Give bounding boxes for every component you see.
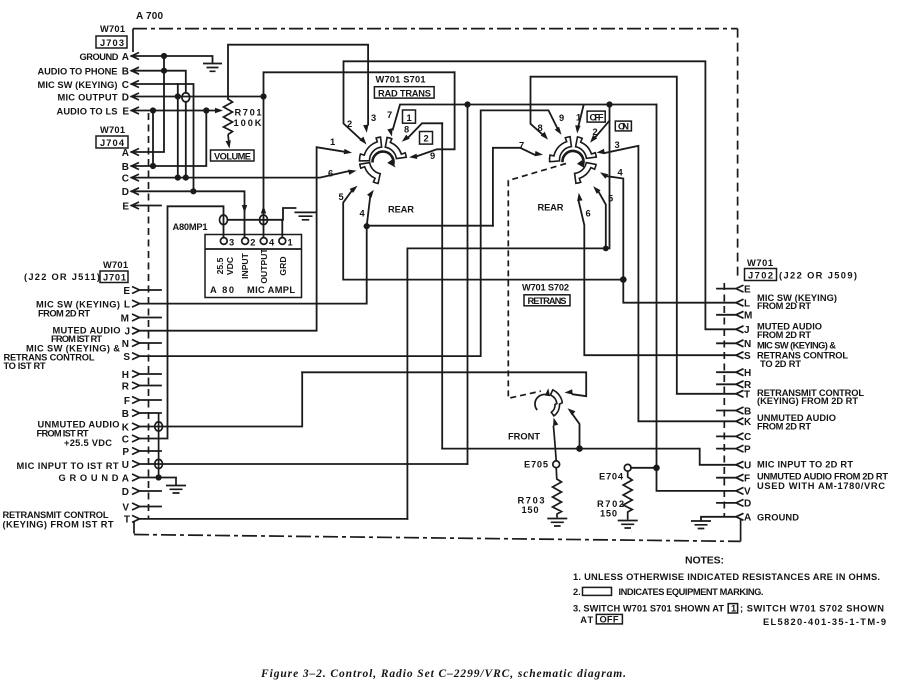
wire J703-D mic output row [132, 96, 264, 98]
svg-text:B: B [122, 409, 129, 420]
wire E705 to front switch bottom contact [553, 426, 556, 461]
svg-text:RAD TRANS: RAD TRANS [378, 88, 431, 98]
svg-text:TO 2D RT: TO 2D RT [760, 359, 801, 369]
J704 pin D chevron [132, 188, 140, 195]
svg-text:MIC SW (KEYING) &: MIC SW (KEYING) & [757, 341, 836, 351]
junction dot contact 5 lead [603, 246, 609, 252]
svg-text:3: 3 [615, 140, 620, 150]
svg-text:T: T [124, 515, 130, 526]
ground symbol at J701-A [166, 478, 186, 494]
svg-text:S: S [123, 352, 130, 363]
J701 pin E chevron [132, 287, 140, 294]
J701 pin M chevron [132, 314, 140, 321]
wire J701-S to S702 contact 9 [140, 110, 558, 356]
svg-text:3: 3 [229, 237, 234, 247]
svg-text:+25.5 VDC: +25.5 VDC [64, 438, 112, 448]
svg-text:8: 8 [404, 125, 409, 135]
svg-text:6: 6 [586, 209, 591, 219]
svg-text:FROM IST RT: FROM IST RT [51, 334, 102, 344]
svg-text:MIC SW (KEYING): MIC SW (KEYING) [38, 80, 118, 90]
J702 pin U chevron [736, 461, 744, 468]
svg-text:E: E [122, 106, 129, 117]
S701 wiper arrow [387, 160, 395, 168]
arrow S702 contact 8 [541, 132, 548, 140]
A700 boundary bottom dash-dot [134, 535, 741, 542]
svg-text:TO IST RT: TO IST RT [4, 361, 46, 371]
svg-text:AT: AT [580, 615, 593, 625]
J701 pin U chevron [132, 461, 140, 468]
ON marking box [615, 121, 631, 131]
J702 pin C chevron [736, 433, 744, 440]
svg-text:EL5820-401-35-1-TM-9: EL5820-401-35-1-TM-9 [763, 617, 886, 627]
svg-text:D: D [122, 92, 129, 103]
svg-text:H: H [744, 368, 751, 379]
wire O1 to ground bus [281, 220, 283, 238]
R701 bottom lead [227, 135, 230, 142]
wire J701-U mic input row [140, 463, 468, 465]
svg-text:T: T [744, 390, 750, 401]
J702 pin A chevron [736, 513, 744, 520]
potentiometer R701 wiper arrow from E row [215, 108, 223, 113]
svg-text:B: B [122, 67, 129, 78]
wire keying bus to J702-U [442, 449, 736, 465]
J703 pin C chevron [132, 81, 140, 88]
S702 wiper arrow [577, 160, 585, 168]
svg-text:D: D [122, 487, 129, 498]
junction dot A row [161, 53, 167, 59]
arrow S701 contact 2 [359, 137, 366, 145]
RETRANS marking box [524, 295, 570, 306]
wire vertical A to J704-A [132, 56, 165, 152]
arrow S702 contact 3 [597, 149, 605, 154]
J702 pin H chevron [736, 369, 744, 376]
feedthrough capacitor on 25.5V line [220, 215, 228, 225]
svg-text:FROM IST RT: FROM IST RT [37, 428, 89, 438]
wire junction to front switch middle contact [572, 413, 580, 449]
svg-text:B: B [744, 406, 751, 417]
svg-text:W701: W701 [100, 125, 125, 135]
wire S702 contact 3 to J702-K [605, 146, 737, 422]
J702 pin M chevron [736, 311, 744, 318]
J704 pin A chevron [132, 149, 140, 156]
J701 pin L chevron [132, 300, 140, 307]
junction dot E row x206 [203, 107, 209, 113]
J701 pin P chevron [132, 448, 140, 455]
arrow up on output wire [261, 206, 266, 214]
svg-text:E705: E705 [524, 460, 548, 470]
svg-text:100K: 100K [234, 118, 262, 128]
wire junction to J702-L [623, 280, 736, 303]
wire U column [467, 105, 469, 465]
J702 pin H stub [717, 371, 736, 373]
svg-text:J704: J704 [100, 138, 125, 148]
wire J704-C to S701 contact 6 [132, 171, 350, 178]
wire J701-T retransmit keying row [140, 518, 408, 520]
svg-text:J703: J703 [100, 38, 124, 48]
svg-text:W701: W701 [747, 258, 773, 268]
svg-text:R: R [122, 381, 130, 392]
svg-text:MIC AMPL: MIC AMPL [247, 285, 295, 295]
svg-text:FROM 2D RT: FROM 2D RT [757, 421, 811, 431]
J702 pin B chevron [736, 407, 744, 414]
arrow S701 contact 6 [348, 170, 356, 175]
svg-text:A: A [122, 148, 129, 159]
svg-text:A: A [744, 513, 751, 524]
J703 pin B chevron [132, 67, 140, 74]
J701 pin T chevron [132, 515, 140, 522]
wire J701-T retrans bus [407, 105, 609, 519]
wire S702 contact 5 to retrans bus [598, 191, 606, 248]
arrow front switch middle contact [568, 408, 576, 415]
svg-text:A 700: A 700 [136, 11, 163, 22]
svg-text:W701: W701 [103, 260, 128, 270]
junction dot D row x263 [260, 93, 266, 99]
wire J701-J to S701 contact 1 [140, 147, 345, 331]
J701 pin N chevron [132, 340, 140, 347]
svg-text:VOLUME: VOLUME [214, 151, 251, 161]
svg-text:4: 4 [618, 168, 624, 178]
svg-text:UNMUTED AUDIO FROM 2D RT: UNMUTED AUDIO FROM 2D RT [757, 471, 888, 481]
svg-text:1: 1 [731, 603, 736, 613]
wire ground to front switch top contact [302, 372, 586, 396]
wire S702 contact 6 to J702-S [579, 201, 737, 356]
svg-text:A 80: A 80 [210, 285, 234, 295]
branch to S702 contact 2 [595, 121, 609, 138]
wire S702 contact 4 to junction [607, 176, 624, 279]
svg-text:(J22 OR J509): (J22 OR J509) [779, 270, 857, 280]
svg-text:1: 1 [288, 237, 293, 247]
arrow S702 contact 6 [577, 193, 582, 201]
svg-text:150: 150 [522, 505, 539, 515]
svg-text:FROM 2D RT: FROM 2D RT [38, 308, 90, 318]
wire J701-L to S701 contact 4 [140, 197, 371, 304]
ground symbol R702 [618, 521, 638, 532]
J702 pin R chevron [736, 381, 744, 388]
wire E row to J704-B [152, 111, 154, 167]
wire to S702 contact 7 [493, 148, 534, 226]
svg-text:M: M [744, 311, 752, 322]
svg-text:V: V [122, 502, 129, 513]
terminal O1 [279, 238, 286, 245]
S702 upper-left contact segment [550, 137, 572, 162]
front switch contact segment [551, 390, 563, 416]
svg-text:B: B [122, 162, 129, 173]
S701 lower-left contact segment [360, 163, 380, 184]
wire vertical C/D to J704-C [177, 84, 179, 178]
J703 pin A chevron [132, 53, 140, 60]
resistor R702 zigzag [623, 471, 632, 519]
J701 pin H chevron [132, 371, 140, 378]
S701 marking box 1 [403, 110, 416, 123]
wire J704-D to mic ampl input [132, 191, 245, 237]
junction dot J704-C x178 [175, 175, 181, 181]
feedthrough capacitor on D row [182, 93, 190, 102]
arrow S702 contact 9 [555, 127, 562, 135]
svg-text:C: C [122, 80, 129, 91]
junction dot E704 node [653, 465, 660, 472]
wire contact4 node to S701 contact 8 riser [367, 123, 493, 225]
J701 pin F chevron [132, 397, 140, 404]
J702 pin P chevron [736, 445, 744, 452]
arrow S702 contact 1 [575, 125, 580, 133]
svg-text:INPUT: INPUT [240, 252, 250, 279]
svg-text:L: L [744, 299, 750, 310]
svg-text:MIC INPUT TO 2D RT: MIC INPUT TO 2D RT [757, 459, 853, 469]
wire mic bus down to E704 node [656, 105, 658, 468]
svg-text:E: E [123, 286, 130, 297]
J702 pin V chevron [736, 487, 744, 494]
svg-text:6: 6 [328, 169, 333, 179]
terminal O3 [220, 238, 227, 245]
junction dot front wiper feed [576, 445, 583, 452]
mic amplifier A80 box [205, 235, 302, 298]
J704 pin E chevron [132, 202, 140, 209]
S702 lower-right contact segment [575, 163, 597, 184]
svg-text:AUDIO TO PHONE: AUDIO TO PHONE [38, 67, 118, 77]
svg-text:A: A [122, 473, 129, 484]
vertical thru K and U feedthroughs [158, 413, 160, 478]
arrow into input pin O2 [242, 205, 247, 213]
J701 pin C chevron [132, 435, 140, 442]
junction dot contact 4 node [364, 223, 370, 229]
J702 pin D chevron [736, 499, 744, 506]
svg-text:W701: W701 [100, 24, 125, 34]
terminal E704 [624, 464, 631, 471]
J701 pin V chevron [132, 503, 140, 510]
svg-text:P: P [122, 447, 129, 458]
svg-text:GROUND: GROUND [757, 513, 799, 523]
S701 wiper arc [372, 152, 393, 166]
arrow S701 contact 4 [367, 190, 374, 198]
svg-text:25.5: 25.5 [215, 257, 225, 274]
svg-text:J: J [124, 327, 130, 338]
junction dot B row [161, 68, 167, 74]
svg-text:3: 3 [371, 113, 376, 123]
resistor R701 zigzag [224, 99, 233, 135]
svg-text:1. UNLESS OTHERWISE INDICATED: 1. UNLESS OTHERWISE INDICATED RESISTANCE… [573, 572, 880, 582]
J701 pin S chevron [132, 353, 140, 360]
svg-text:P: P [744, 444, 751, 455]
svg-text:N: N [122, 339, 129, 350]
junction dot A row x158 [156, 474, 162, 480]
svg-text:REAR: REAR [388, 205, 414, 215]
J701 pin B chevron [132, 410, 140, 417]
svg-text:(KEYING) FROM 2D RT: (KEYING) FROM 2D RT [757, 396, 858, 406]
junction dot J704-B [150, 163, 156, 169]
svg-text:AUDIO TO LS: AUDIO TO LS [57, 106, 118, 116]
svg-text:USED WITH AM-1780/VRC: USED WITH AM-1780/VRC [757, 481, 885, 491]
wire E row to J704-B right leg [132, 111, 207, 167]
svg-text:F: F [744, 474, 750, 485]
feedthrough capacitor on K row [155, 422, 163, 431]
front switch wiper arc [535, 394, 546, 410]
ground bus above A80 [228, 208, 296, 220]
J702 pin S chevron [736, 352, 744, 359]
svg-text:U: U [122, 460, 129, 471]
svg-text:A: A [122, 52, 129, 63]
svg-text:U: U [744, 461, 751, 472]
svg-text:A80MP1: A80MP1 [173, 222, 208, 232]
ground symbol top left [203, 64, 222, 72]
connector boundary dashed left [148, 113, 150, 518]
svg-text:INDICATES EQUIPMENT MARKING.: INDICATES EQUIPMENT MARKING. [619, 587, 764, 597]
svg-text:9: 9 [559, 113, 564, 123]
wire J701-K unmuted audio row [140, 372, 303, 426]
svg-text:GRD: GRD [278, 256, 288, 275]
wire J703-B to feedthru [132, 71, 186, 93]
svg-text:W701 S702: W701 S702 [522, 283, 569, 293]
svg-text:; SWITCH W701 S702 SHOWN: ; SWITCH W701 S702 SHOWN [740, 604, 884, 614]
R701 top lead to S701 contact 3 [228, 45, 368, 125]
J704 pin E stub [132, 205, 162, 207]
J703 pin E chevron [132, 107, 140, 114]
wire mic bus S701 contact 7 [393, 105, 657, 130]
svg-text:V: V [744, 487, 751, 498]
svg-text:E: E [122, 201, 129, 212]
arrow front switch bottom contact [553, 418, 558, 426]
svg-text:Figure 3–2. Control, Radio Se: Figure 3–2. Control, Radio Set C–2299/VR… [260, 668, 626, 680]
A700 boundary bottom right corner [740, 519, 742, 541]
svg-text:W701 S701: W701 S701 [376, 75, 426, 85]
S701 upper-right contact segment [385, 137, 406, 158]
wire feedthru to J704-C [185, 102, 187, 178]
terminal O2 [242, 238, 249, 245]
svg-text:OFF: OFF [600, 614, 619, 624]
svg-text:FROM 2D RT: FROM 2D RT [757, 301, 811, 311]
svg-text:M: M [121, 313, 129, 324]
svg-text:5: 5 [608, 194, 613, 204]
connector J702 boundary dashed [723, 283, 725, 516]
wire S701 contact 5 to junction [343, 191, 623, 280]
svg-text:2: 2 [250, 237, 255, 247]
svg-text:OUTPUT: OUTPUT [259, 248, 269, 284]
svg-text:7: 7 [387, 110, 392, 120]
S702 wiper arc [562, 151, 583, 166]
arrow S701 contact 1 [344, 149, 352, 154]
A700 boundary top dash-dot [133, 28, 738, 30]
svg-text:K: K [744, 417, 752, 428]
junction dot J704-C x186 [183, 175, 189, 181]
terminal E705 [553, 461, 560, 468]
svg-text:1: 1 [330, 137, 335, 147]
A700 boundary right dash-dot [737, 29, 739, 278]
arrow S702 contact 7 [535, 151, 543, 156]
svg-text:(KEYING) FROM IST RT: (KEYING) FROM IST RT [3, 519, 114, 529]
svg-text:9: 9 [430, 151, 435, 161]
wire J702-A to ground [701, 517, 736, 521]
J702 pin K chevron [736, 418, 744, 425]
arrow S702 contact 4 [600, 172, 608, 179]
arrow S701 contact 3 [363, 125, 368, 133]
svg-text:F: F [124, 396, 130, 407]
VOLUME marking box [211, 150, 255, 161]
svg-text:2: 2 [424, 134, 429, 144]
A80 terminal strip line [205, 248, 302, 250]
ground symbol R703 [547, 519, 567, 527]
svg-text:MIC OUTPUT: MIC OUTPUT [58, 92, 118, 102]
svg-text:3. SWITCH W701 S701 SHOWN AT: 3. SWITCH W701 S701 SHOWN AT [573, 604, 724, 614]
S702 mechanical link dashed [508, 164, 566, 399]
svg-text:N: N [744, 339, 751, 350]
svg-text:H: H [122, 370, 129, 381]
J701 pin K chevron [132, 423, 140, 430]
svg-text:C: C [744, 432, 751, 443]
svg-text:5: 5 [339, 192, 344, 202]
arrow S701 contact 9 [409, 154, 417, 159]
svg-text:2.: 2. [573, 587, 581, 597]
J701 pin J chevron [132, 327, 140, 334]
S701 marking box 2 [420, 132, 433, 145]
J704 pin C chevron [132, 174, 140, 181]
svg-text:C: C [122, 434, 129, 445]
junction dot J704-D [190, 188, 196, 194]
junction dot D row x178 [175, 93, 181, 99]
svg-text:4: 4 [269, 237, 275, 247]
arrow S701 contact 5 [350, 186, 358, 193]
svg-text:(J22 OR J511): (J22 OR J511) [24, 272, 100, 282]
svg-text:REAR: REAR [538, 203, 564, 213]
svg-text:J702: J702 [748, 270, 773, 280]
feedthrough capacitor on U row [155, 459, 163, 468]
svg-text:RETRANS: RETRANS [528, 296, 567, 306]
J702 pin L chevron [736, 299, 744, 306]
S701 upper-left contact segment [359, 137, 381, 161]
wire J703-A to ground [132, 56, 213, 63]
ground symbol above A80 [295, 212, 317, 219]
J701 pin R chevron [132, 382, 140, 389]
junction dot mic bus x467 [464, 101, 470, 107]
junction dot E row x153 [150, 107, 156, 113]
svg-text:E: E [744, 284, 751, 295]
svg-text:GROUND: GROUND [80, 52, 119, 62]
svg-text:ON: ON [618, 121, 629, 131]
svg-text:1: 1 [407, 113, 412, 123]
svg-text:4: 4 [360, 209, 366, 219]
svg-text:NOTES:: NOTES: [685, 555, 724, 567]
svg-text:FROM 2D RT: FROM 2D RT [757, 330, 811, 340]
wire J703-E audio to LS row [132, 110, 217, 112]
J702 pin T chevron [736, 390, 744, 397]
svg-text:D: D [122, 187, 129, 198]
svg-text:2: 2 [593, 127, 598, 137]
wire J701-C +25.5VDC up to mic ampl [140, 206, 224, 438]
svg-text:MIC INPUT TO IST RT: MIC INPUT TO IST RT [17, 461, 119, 471]
front switch wiper arrow [545, 388, 550, 396]
J702 pin E chevron [736, 285, 744, 292]
svg-text:150: 150 [600, 509, 617, 519]
wire S702 contact 8 to J702-T [531, 77, 737, 394]
svg-text:S: S [744, 351, 751, 362]
junction dot retrans audio [620, 276, 627, 283]
wire E704 node to J702-V [657, 468, 737, 491]
J702 pin J chevron [736, 326, 744, 333]
arrow S701 contact 7 [387, 128, 392, 136]
svg-text:E704: E704 [599, 472, 624, 482]
arrow S701 contact 8 [402, 135, 410, 142]
OFF marking box [587, 111, 605, 122]
svg-text:7: 7 [519, 141, 524, 151]
J704 pin B chevron [132, 163, 140, 170]
svg-text:L: L [124, 299, 130, 310]
J701 pin D chevron [132, 488, 140, 495]
wire J703-C down to input node [132, 84, 194, 191]
wire mic output O4 to D row [264, 72, 455, 237]
svg-text:D: D [744, 499, 751, 510]
wire J701-A ground row [140, 477, 177, 479]
resistor R703 zigzag [553, 468, 562, 518]
S702 upper-right contact segment [576, 137, 597, 159]
feedthrough capacitor on output line [260, 215, 268, 225]
